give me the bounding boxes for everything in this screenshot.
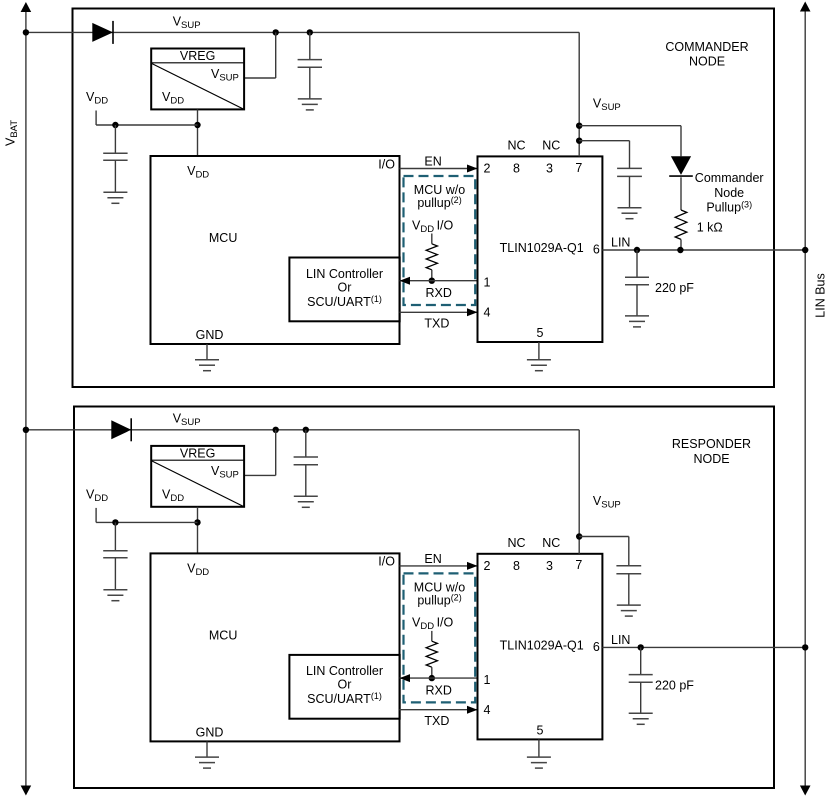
svg-text:NC: NC bbox=[542, 536, 560, 550]
svg-text:NODE: NODE bbox=[693, 452, 729, 466]
svg-text:LIN: LIN bbox=[611, 633, 630, 647]
svg-text:220 pF: 220 pF bbox=[655, 679, 694, 693]
svg-text:1: 1 bbox=[484, 673, 491, 687]
svg-text:3: 3 bbox=[546, 162, 553, 176]
svg-text:NC: NC bbox=[542, 139, 560, 153]
svg-text:RXD: RXD bbox=[426, 684, 452, 698]
svg-text:1 kΩ: 1 kΩ bbox=[697, 220, 723, 234]
svg-text:4: 4 bbox=[484, 306, 491, 320]
svg-text:EN: EN bbox=[424, 155, 441, 169]
svg-text:LIN: LIN bbox=[611, 235, 630, 249]
svg-text:TXD: TXD bbox=[424, 714, 449, 728]
svg-text:VREG: VREG bbox=[180, 49, 215, 63]
svg-text:4: 4 bbox=[484, 703, 491, 717]
svg-text:MCU: MCU bbox=[209, 629, 237, 643]
svg-text:I/O: I/O bbox=[378, 555, 395, 569]
svg-text:SCU/UART(1): SCU/UART(1) bbox=[307, 294, 382, 309]
svg-text:220 pF: 220 pF bbox=[655, 281, 694, 295]
svg-text:GND: GND bbox=[196, 726, 224, 740]
svg-text:2: 2 bbox=[484, 559, 491, 573]
svg-text:MCU: MCU bbox=[209, 231, 237, 245]
svg-text:NODE: NODE bbox=[689, 54, 725, 68]
svg-text:RXD: RXD bbox=[426, 286, 452, 300]
svg-text:7: 7 bbox=[575, 161, 582, 175]
svg-text:VREG: VREG bbox=[180, 447, 215, 461]
svg-text:Commander: Commander bbox=[695, 171, 764, 185]
svg-text:RESPONDER: RESPONDER bbox=[672, 437, 751, 451]
svg-text:NC: NC bbox=[507, 139, 525, 153]
svg-text:1: 1 bbox=[484, 276, 491, 290]
svg-text:LIN Controller: LIN Controller bbox=[306, 267, 383, 281]
svg-text:I/O: I/O bbox=[378, 157, 395, 171]
svg-text:TLIN1029A-Q1: TLIN1029A-Q1 bbox=[500, 639, 584, 653]
svg-text:EN: EN bbox=[424, 552, 441, 566]
svg-text:SCU/UART(1): SCU/UART(1) bbox=[307, 691, 382, 706]
svg-text:6: 6 bbox=[593, 640, 600, 654]
svg-text:2: 2 bbox=[484, 162, 491, 176]
svg-text:TXD: TXD bbox=[424, 317, 449, 331]
svg-text:7: 7 bbox=[575, 558, 582, 572]
svg-text:Node: Node bbox=[714, 186, 744, 200]
svg-text:GND: GND bbox=[196, 328, 224, 342]
svg-text:Or: Or bbox=[338, 280, 352, 294]
svg-text:Or: Or bbox=[338, 678, 352, 692]
svg-text:NC: NC bbox=[507, 536, 525, 550]
svg-text:COMMANDER: COMMANDER bbox=[665, 40, 748, 54]
svg-text:5: 5 bbox=[537, 724, 544, 738]
svg-text:8: 8 bbox=[513, 162, 520, 176]
svg-text:LIN Bus: LIN Bus bbox=[813, 273, 827, 317]
svg-text:3: 3 bbox=[546, 559, 553, 573]
svg-text:8: 8 bbox=[513, 559, 520, 573]
svg-text:6: 6 bbox=[593, 243, 600, 257]
svg-text:TLIN1029A-Q1: TLIN1029A-Q1 bbox=[500, 241, 584, 255]
svg-text:LIN Controller: LIN Controller bbox=[306, 664, 383, 678]
svg-text:5: 5 bbox=[537, 326, 544, 340]
